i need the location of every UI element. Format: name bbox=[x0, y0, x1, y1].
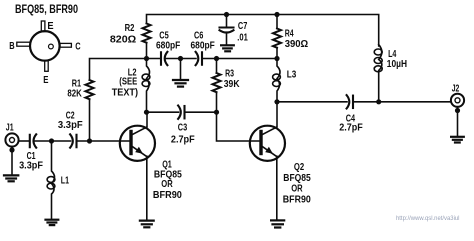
wire Q2 emitter bbox=[276, 156, 278, 220]
wire output row bbox=[277, 101, 347, 103]
svg-text:2.7pF: 2.7pF bbox=[171, 134, 195, 145]
svg-text:3.3pF: 3.3pF bbox=[19, 161, 43, 172]
connector J2 bbox=[451, 94, 464, 107]
wire midpoint ground stem bbox=[180, 59, 182, 80]
svg-text:BFR90: BFR90 bbox=[283, 194, 311, 205]
node C5-C6 midpoint bbox=[178, 56, 183, 61]
svg-text:10µH: 10µH bbox=[387, 59, 407, 70]
svg-text:C3: C3 bbox=[178, 122, 188, 133]
node R4 rail tap bbox=[274, 12, 279, 17]
wire C2 to Q1 base bbox=[77, 140, 130, 142]
inductor L2 bbox=[142, 59, 150, 113]
svg-text:TEXT): TEXT) bbox=[112, 88, 138, 99]
capacitor C1 bbox=[30, 134, 36, 147]
wire Q1 bias node horizontal bbox=[90, 59, 162, 81]
node C6-R3 junction bbox=[214, 56, 219, 61]
svg-text:OR: OR bbox=[161, 179, 173, 190]
resistor R3 bbox=[216, 59, 218, 74]
wire R2 bottom bbox=[146, 43, 148, 59]
node J1 shield bbox=[9, 147, 14, 152]
svg-text:BFQ85, BFR90: BFQ85, BFR90 bbox=[15, 3, 78, 16]
svg-text:2.7pF: 2.7pF bbox=[339, 122, 363, 133]
resistor R1 bbox=[86, 80, 94, 99]
svg-text:J1: J1 bbox=[6, 123, 14, 134]
svg-text:39K: 39K bbox=[224, 79, 240, 90]
node C3-R3 junction bbox=[214, 110, 219, 115]
wire Q1 collector bbox=[146, 112, 148, 126]
node C1-L1 junction bbox=[49, 138, 54, 143]
node R4 bottom junction bbox=[274, 56, 279, 61]
ground C7 bbox=[221, 45, 234, 51]
node L4 output junction bbox=[376, 99, 381, 104]
wire top supply rail bbox=[147, 15, 379, 47]
wire J2 shield stem bbox=[457, 107, 459, 137]
inductor L4 bbox=[374, 45, 382, 102]
svg-text:http://www.qsl.net/va3iul: http://www.qsl.net/va3iul bbox=[396, 215, 460, 222]
resistor R2 bbox=[143, 24, 151, 43]
wire J1 shield stem bbox=[11, 146, 13, 175]
svg-text:L1: L1 bbox=[61, 175, 69, 186]
wire J1 to C1 bbox=[18, 140, 29, 142]
svg-text:OR: OR bbox=[291, 183, 303, 194]
svg-text:820Ω: 820Ω bbox=[110, 35, 136, 46]
svg-text:C7: C7 bbox=[238, 21, 248, 32]
inductor L1 bbox=[47, 141, 55, 220]
svg-text:E: E bbox=[47, 21, 53, 32]
ground J1 bbox=[4, 175, 18, 181]
svg-text:R2: R2 bbox=[125, 23, 135, 34]
connector J1 bbox=[5, 133, 18, 146]
ground L1 bbox=[46, 220, 59, 225]
capacitor C6 bbox=[181, 58, 197, 60]
resistor R4 bbox=[276, 15, 278, 29]
svg-text:C: C bbox=[75, 42, 81, 53]
wire R1 bottom bbox=[89, 99, 91, 141]
wire R3 to Q2 base bbox=[217, 92, 260, 141]
node C7 rail tap bbox=[224, 12, 229, 17]
svg-text:L3: L3 bbox=[287, 69, 297, 80]
svg-text:390Ω: 390Ω bbox=[285, 39, 309, 50]
transistor Q1 bbox=[120, 126, 155, 161]
capacitor C7 bbox=[226, 15, 228, 28]
wire Q1 emitter bbox=[146, 156, 148, 220]
svg-text:82K: 82K bbox=[67, 89, 82, 100]
inductor L3 bbox=[273, 59, 281, 102]
transistor pinout package bbox=[17, 21, 72, 71]
node J2 shield bbox=[455, 108, 460, 113]
svg-text:.01: .01 bbox=[237, 32, 248, 43]
capacitor C2 bbox=[52, 140, 71, 142]
svg-text:3.3pF: 3.3pF bbox=[58, 120, 83, 131]
ground C5-C6 midpoint bbox=[173, 80, 188, 87]
node Q1 collector junction bbox=[144, 110, 149, 115]
svg-text:BFR90: BFR90 bbox=[153, 190, 182, 201]
svg-text:(SEE: (SEE bbox=[119, 77, 137, 88]
svg-text:E: E bbox=[43, 75, 48, 86]
wire Q2 collector bbox=[276, 102, 278, 126]
svg-text:J2: J2 bbox=[452, 83, 460, 94]
capacitor C5 bbox=[161, 52, 167, 65]
capacitor C3 bbox=[147, 111, 179, 113]
svg-text:680pF: 680pF bbox=[156, 40, 180, 51]
svg-text:R4: R4 bbox=[285, 28, 294, 39]
node Q2 collector junction bbox=[274, 99, 279, 104]
capacitor C4 bbox=[347, 95, 353, 108]
ground Q2 emitter bbox=[271, 220, 284, 227]
svg-text:Q2: Q2 bbox=[294, 162, 304, 173]
svg-text:B: B bbox=[9, 41, 15, 52]
ground Q1 emitter bbox=[140, 221, 154, 228]
transistor Q2 bbox=[250, 126, 285, 161]
node C2-R1 junction bbox=[87, 138, 92, 143]
svg-text:680pF: 680pF bbox=[191, 40, 215, 51]
ground J2 bbox=[451, 137, 464, 143]
node L2 top junction bbox=[144, 56, 149, 61]
